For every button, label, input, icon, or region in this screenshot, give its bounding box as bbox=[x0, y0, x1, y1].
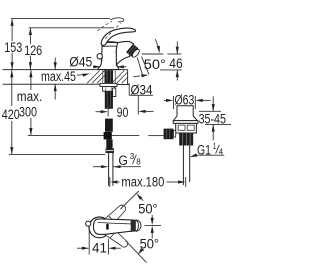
node G3/8 arrows bbox=[93, 166, 102, 168]
node Ø45 arrows bbox=[93, 66, 96, 68]
wire lever axis reference line bbox=[145, 224, 162, 226]
node Ø63 arrows bbox=[164, 99, 167, 101]
node max.45 dimension line bbox=[54, 58, 56, 70]
mounting washer bbox=[100, 83, 117, 86]
faucet threaded shank bbox=[102, 70, 104, 83]
hose end nut bbox=[106, 148, 115, 153]
top view lever slot bbox=[106, 224, 109, 230]
node 50deg second arrow (side view) bbox=[133, 75, 140, 78]
node 35-45 dimension line bbox=[212, 96, 214, 111]
node max.180 ticks bbox=[109, 177, 111, 187]
top view lever end cap bbox=[136, 220, 139, 231]
svg-text:3: 3 bbox=[130, 151, 135, 161]
svg-text:max.: max. bbox=[17, 89, 43, 104]
node 153 dimension line bbox=[11, 19, 13, 41]
drain flange bbox=[173, 121, 198, 124]
node max.420 dimension line bbox=[11, 70, 13, 106]
svg-text:50°: 50° bbox=[138, 201, 158, 216]
wire max.420 bottom reference line bbox=[9, 153, 106, 155]
top view faucet body circle bbox=[89, 217, 110, 238]
pop-up rod guide bbox=[113, 88, 116, 97]
wire deck top line bbox=[3, 69, 99, 71]
ghost lever down position (top view) bbox=[105, 231, 128, 247]
top view pop-up knob circle bbox=[86, 221, 91, 226]
wire lower ghost axis line bbox=[126, 241, 147, 263]
svg-text:8: 8 bbox=[136, 157, 141, 167]
node 46 dimension bbox=[176, 42, 178, 55]
svg-text:G: G bbox=[118, 153, 128, 168]
deck hatching bbox=[87, 71, 127, 84]
node lever axis angle arrows bbox=[151, 215, 153, 218]
svg-text:max.180: max.180 bbox=[121, 175, 164, 190]
G3/8 connector tube bbox=[108, 153, 110, 186]
ghost lever up position (top view) bbox=[104, 205, 126, 223]
svg-text:420: 420 bbox=[2, 107, 20, 122]
node max.45 leader arrow bbox=[77, 74, 84, 77]
svg-text:max.45: max.45 bbox=[41, 69, 76, 84]
faucet spout side view bbox=[116, 41, 133, 64]
wire 46 bottom reference line bbox=[160, 69, 182, 71]
faucet body side view bbox=[98, 42, 119, 69]
node 50deg lower leader arrow bbox=[142, 249, 144, 251]
wire deck right edge bbox=[127, 70, 129, 85]
faucet cartridge cap bbox=[102, 41, 117, 44]
wire line A (top reference line, lever raised height) bbox=[11, 18, 110, 20]
faucet lever handle side view bbox=[101, 28, 135, 45]
faucet aerator (knurled, angled 50deg) bbox=[126, 44, 141, 59]
top view lever end band bbox=[131, 220, 136, 231]
node 126 dimension line bbox=[29, 28, 31, 44]
pop-up rod knob (knurled) bbox=[164, 129, 174, 140]
node Ø34 leader bbox=[128, 83, 130, 95]
drain plug bbox=[173, 106, 197, 121]
node 41 reference lines bbox=[88, 228, 90, 255]
svg-text:300: 300 bbox=[19, 105, 37, 120]
ghost raised lever (dashed) side view bbox=[105, 23, 120, 38]
svg-text:1: 1 bbox=[213, 141, 217, 151]
node 41 arrows bbox=[77, 247, 83, 249]
node 50deg upper leader arrow bbox=[141, 199, 143, 201]
wire line B (second reference line, lever rest height) bbox=[29, 27, 114, 29]
wire 300 bottom reference + pop-up rod line bbox=[28, 135, 140, 137]
svg-text:90: 90 bbox=[117, 105, 129, 120]
svg-text:Ø34: Ø34 bbox=[131, 82, 153, 97]
svg-text:G1: G1 bbox=[197, 143, 211, 158]
node 90 arrows bbox=[96, 111, 102, 113]
node 35-45 reference lines bbox=[199, 110, 221, 112]
svg-text:Ø45: Ø45 bbox=[69, 55, 92, 70]
drain threaded tail bbox=[179, 133, 193, 146]
node max.180 arrows bbox=[110, 180, 117, 183]
faucet pop-up knob side view bbox=[97, 54, 102, 59]
svg-text:153: 153 bbox=[4, 40, 22, 55]
node 300 dimension line bbox=[30, 70, 32, 90]
svg-text:Ø63: Ø63 bbox=[175, 93, 195, 108]
node G1 1/4 leader bbox=[196, 154, 224, 156]
drain tailpipe bbox=[182, 146, 184, 186]
wire aerator angle extension lines bbox=[137, 58, 142, 76]
svg-text:41: 41 bbox=[92, 241, 107, 256]
top view lever handle bbox=[93, 219, 135, 235]
node 50deg leader arrow (side view) bbox=[155, 39, 158, 47]
svg-text:126: 126 bbox=[24, 43, 42, 58]
svg-text:46: 46 bbox=[169, 56, 182, 71]
node 90 left tick bbox=[107, 108, 109, 117]
svg-text:35-45: 35-45 bbox=[199, 111, 226, 126]
wire upper ghost axis line bbox=[120, 191, 138, 209]
svg-text:4: 4 bbox=[219, 147, 224, 157]
pop-up rod clamp bbox=[104, 132, 112, 139]
drain body bbox=[176, 123, 197, 133]
mounting nut bbox=[103, 87, 115, 92]
flexible supply hose bbox=[105, 91, 113, 109]
wire deck bottom line bbox=[3, 83, 101, 85]
wire spout axis reference line bbox=[142, 53, 163, 55]
node Ø63 reference lines bbox=[173, 96, 175, 109]
